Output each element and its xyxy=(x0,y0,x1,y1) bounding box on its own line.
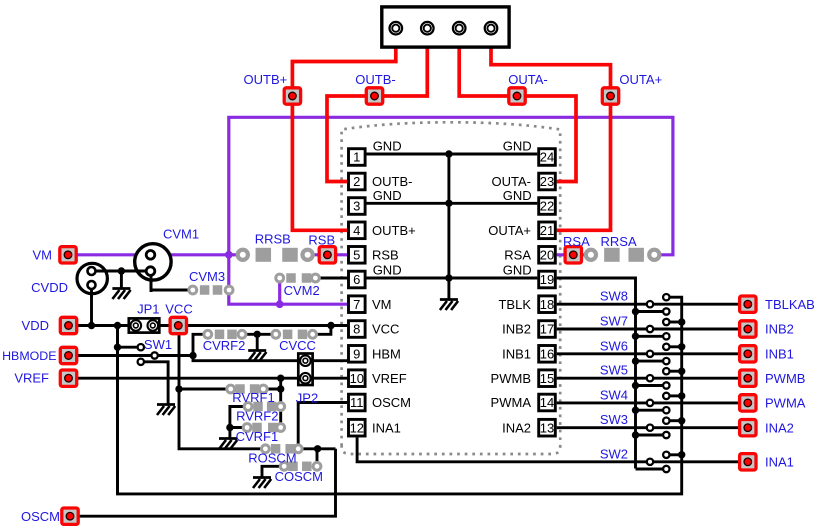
wire VREF terminal to pin 10 xyxy=(69,377,348,380)
svg-text:15: 15 xyxy=(540,371,554,386)
svg-text:OSCM: OSCM xyxy=(372,395,411,410)
label pin 4 OUTB+ xyxy=(372,223,416,238)
label RRSA xyxy=(601,234,637,249)
node right bus junction SW6 xyxy=(678,343,685,350)
wire CVRF1 left stub xyxy=(230,426,247,429)
wire ROSCM right to OSCM drop xyxy=(298,447,335,450)
label pin 17 INB2 xyxy=(502,322,531,337)
wire CVDD top pin to CVM1 bottom pin xyxy=(92,270,152,273)
label VDD xyxy=(22,318,49,333)
svg-text:HBM: HBM xyxy=(372,346,401,361)
wire CVCC right leg to VCC rail xyxy=(313,326,331,335)
node left bus junction SW7 xyxy=(632,333,639,340)
terminal OUTA+ xyxy=(602,88,618,104)
switch SW3 header circles xyxy=(647,418,670,439)
label HBMODE xyxy=(2,349,56,363)
svg-text:VM: VM xyxy=(33,247,53,262)
pin 8 box xyxy=(349,321,366,338)
wire RVRF1 row xyxy=(179,388,231,391)
wire SW3 upper pin to right bus xyxy=(666,419,681,422)
svg-text:VCC: VCC xyxy=(372,322,399,337)
label RVRF2 xyxy=(236,408,278,423)
svg-text:GND: GND xyxy=(373,188,402,203)
svg-text:INB1: INB1 xyxy=(502,346,531,361)
IC U1 dashed courtyard outline xyxy=(342,122,561,454)
label pin 13 INA2 xyxy=(502,420,531,435)
node right bus junction SW3 xyxy=(678,417,685,424)
label pin 10 VREF xyxy=(372,371,407,386)
svg-text:OUTA-: OUTA- xyxy=(508,72,547,87)
svg-text:INA1: INA1 xyxy=(765,454,794,469)
wire red OUTA+: connector pin4 to OUTA+ terminal to pin 21 xyxy=(491,28,611,230)
wire GND center bus xyxy=(447,154,450,299)
label pin 16 INB1 xyxy=(502,346,531,361)
pin 21 box xyxy=(539,222,556,239)
label pin 24 GND xyxy=(503,139,532,154)
wire purple: CVM2 left pin drop xyxy=(278,278,281,304)
node RVRF2-CVRF1 junction xyxy=(226,424,233,431)
svg-text:18: 18 xyxy=(540,297,554,312)
node VDD-CVDD junction xyxy=(88,322,95,329)
label CVRF2 xyxy=(203,338,246,353)
label pin 6 GND xyxy=(373,263,402,278)
svg-text:RRSB: RRSB xyxy=(255,232,291,247)
ground at SW1 xyxy=(157,405,175,416)
svg-text:INA2: INA2 xyxy=(502,420,531,435)
label pin 23 OUTA- xyxy=(492,174,531,189)
wire RVRF2 ground drop xyxy=(228,428,231,438)
svg-text:GND: GND xyxy=(503,263,532,278)
node left bus junction SW3 xyxy=(632,431,639,438)
label VCC xyxy=(165,301,192,316)
wire VDD rail drop to bottom rail xyxy=(116,326,119,494)
terminal INB1 xyxy=(740,346,756,362)
svg-text:8: 8 xyxy=(353,322,360,337)
wire purple: RRSB left circle stub xyxy=(229,253,240,256)
node SW1 stub junction xyxy=(114,344,121,351)
svg-text:GND: GND xyxy=(373,139,402,154)
label pin 14 PWMA xyxy=(491,395,532,410)
terminal OUTA- xyxy=(509,88,525,104)
wire SW6 lower pin to left bus xyxy=(636,360,667,363)
jumper JP2 xyxy=(298,354,312,386)
label VM xyxy=(33,247,53,262)
wire CVM1 bottom pin to CVM3 xyxy=(151,271,193,290)
svg-text:RRSA: RRSA xyxy=(601,234,637,249)
label SW2 xyxy=(600,446,628,461)
node ROSCM junction xyxy=(314,445,321,452)
wire CVRF2 row ground drop xyxy=(256,334,259,349)
svg-text:22: 22 xyxy=(540,199,554,214)
resistor RVRF2 xyxy=(244,402,284,412)
svg-text:OUTB-: OUTB- xyxy=(355,72,395,87)
terminal OSCM xyxy=(62,508,78,524)
label pin 20 RSA xyxy=(504,247,531,262)
node VREF junction xyxy=(277,375,284,382)
node GND bus junction r1 xyxy=(445,150,452,157)
svg-text:OUTB+: OUTB+ xyxy=(244,72,288,87)
label pin 5 RSB xyxy=(372,247,399,262)
svg-text:SW6: SW6 xyxy=(600,338,628,353)
node left bus junction SW4 xyxy=(632,407,639,414)
label pin 3 GND xyxy=(373,188,402,203)
svg-text:SW8: SW8 xyxy=(600,289,628,304)
label JP1 xyxy=(137,301,159,316)
label CVDD xyxy=(31,280,68,295)
label RSA xyxy=(563,234,590,249)
resistor ROSCM xyxy=(262,444,303,454)
svg-text:INA2: INA2 xyxy=(765,420,794,435)
pin 2 box xyxy=(349,173,366,190)
svg-text:PWMA: PWMA xyxy=(765,396,806,411)
svg-text:1: 1 xyxy=(353,150,360,165)
pin 20 box xyxy=(539,247,556,264)
svg-text:VM: VM xyxy=(372,297,392,312)
label RSB xyxy=(308,233,335,248)
label pin 2 OUTB- xyxy=(372,174,412,189)
label INB1 xyxy=(765,346,794,361)
wire HBMODE terminal through SW1 to junction xyxy=(69,354,194,357)
resistor RVRF1 xyxy=(227,384,267,394)
svg-text:11: 11 xyxy=(350,395,364,410)
wire SW8 lower pin to left bus xyxy=(636,310,667,313)
wire right switch bus down to bottom rail and left to VDD rail xyxy=(118,297,682,494)
label PWMB xyxy=(765,371,805,386)
pin 14 box xyxy=(539,394,556,411)
svg-text:INA1: INA1 xyxy=(372,420,401,435)
jumper JP1 xyxy=(129,318,160,332)
label pin 12 INA1 xyxy=(372,420,401,435)
svg-text:13: 13 xyxy=(540,420,554,435)
wire pin 11 OSCM to ROSCM xyxy=(298,403,347,449)
terminal OUTB- xyxy=(366,88,382,104)
svg-text:SW5: SW5 xyxy=(600,363,628,378)
switch SW1 xyxy=(138,344,158,365)
svg-text:CVM2: CVM2 xyxy=(284,283,320,298)
terminal VCC xyxy=(170,317,186,333)
terminal INB2 xyxy=(740,321,756,337)
svg-text:SW4: SW4 xyxy=(600,387,628,402)
label pin 18 TBLK xyxy=(498,297,531,312)
capacitor CVRF1 xyxy=(243,423,284,433)
wire GND row pin6-pin19 xyxy=(366,277,537,280)
node purple junction at VM rail xyxy=(225,251,233,259)
node right bus junction SW7 xyxy=(678,318,685,325)
capacitor CVCC xyxy=(272,330,317,340)
terminal VM xyxy=(60,247,76,263)
svg-text:VDD: VDD xyxy=(22,318,49,333)
svg-text:PWMB: PWMB xyxy=(491,371,531,386)
svg-text:CVCC: CVCC xyxy=(279,338,316,353)
svg-text:SW3: SW3 xyxy=(600,412,628,427)
switch SW5 header circles xyxy=(647,368,670,389)
wire SW3 lower pin to left bus xyxy=(636,434,667,437)
wire VDD terminal through JP1 and VCC to pin 8 xyxy=(69,324,348,327)
switch SW6 header circles xyxy=(647,344,670,365)
terminal VREF xyxy=(60,370,76,386)
svg-text:PWMA: PWMA xyxy=(491,395,532,410)
node RVRF1 right junction xyxy=(277,385,284,392)
terminal PWMB xyxy=(740,370,756,386)
pin 19 box xyxy=(539,271,556,288)
label OUTB- xyxy=(355,72,395,87)
svg-text:VREF: VREF xyxy=(14,371,49,386)
wire SW6 upper pin to right bus xyxy=(666,345,681,348)
svg-text:TBLK: TBLK xyxy=(498,297,531,312)
wire CVM2 right pin to pin 6 xyxy=(315,277,347,280)
terminal VDD xyxy=(60,317,76,333)
wire COSCM right leg xyxy=(316,449,319,467)
wire CVDD ground drop xyxy=(120,271,123,288)
wire INB1 pin 16 to INB1 terminal xyxy=(557,352,748,355)
terminal RSB xyxy=(319,247,335,263)
pin 1 box xyxy=(349,149,366,166)
svg-text:TBLKAB: TBLKAB xyxy=(765,297,815,312)
wire VCC terminal drop to ROSCM row xyxy=(179,335,265,449)
capacitor CVRF2 xyxy=(204,330,246,340)
svg-text:GND: GND xyxy=(503,188,532,203)
pin 9 box xyxy=(349,346,366,363)
label PWMA xyxy=(765,396,806,411)
wire CVRF2 left leg xyxy=(193,334,208,355)
svg-text:17: 17 xyxy=(540,322,554,337)
label OUTA- xyxy=(508,72,547,87)
label OSCM xyxy=(21,509,60,524)
wire CVDD bottom pin to VDD rail xyxy=(90,285,93,326)
terminal HBMODE xyxy=(60,347,76,363)
svg-text:2: 2 xyxy=(353,174,360,189)
capacitor CVM3 xyxy=(189,285,233,295)
svg-text:GND: GND xyxy=(373,263,402,278)
switch SW8 header circles xyxy=(647,294,670,315)
label pin 11 OSCM xyxy=(372,395,411,410)
svg-text:12: 12 xyxy=(350,420,364,435)
wire SW1 pin C to ground xyxy=(141,362,168,404)
svg-text:21: 21 xyxy=(540,223,554,238)
svg-text:GND: GND xyxy=(503,139,532,154)
terminal INA1 xyxy=(740,454,756,470)
svg-text:SW1: SW1 xyxy=(144,337,172,352)
node GND bus junction r6 xyxy=(445,274,452,281)
label pin 15 PWMB xyxy=(491,371,531,386)
pin 17 box xyxy=(539,321,556,338)
node purple junction at pin7 row xyxy=(276,300,284,308)
svg-text:OUTA-: OUTA- xyxy=(492,174,531,189)
resistor RRSA xyxy=(586,248,660,262)
svg-text:9: 9 xyxy=(353,347,360,362)
label INB2 xyxy=(765,322,794,337)
label CVRF1 xyxy=(236,429,279,444)
svg-text:6: 6 xyxy=(353,272,360,287)
svg-text:16: 16 xyxy=(540,347,554,362)
switch SW7 header circles xyxy=(647,319,670,340)
pin 10 box xyxy=(349,370,366,387)
label INA2 xyxy=(765,420,794,435)
wire HBM to pin 9 xyxy=(193,356,347,361)
wire red OUTA-: connector pin3 to OUTA- terminal to pin 23 xyxy=(459,28,576,182)
wire VM purple: VM terminal to junction, up and across top, down to RRSA xyxy=(68,117,673,255)
wire pin 19 to left switch bus xyxy=(557,278,636,469)
wire RVRF2 left leg xyxy=(230,407,248,428)
node left bus junction SW8 xyxy=(632,308,639,315)
wire PWMA pin 14 to PWMA terminal xyxy=(557,401,748,404)
svg-text:14: 14 xyxy=(540,395,554,410)
svg-text:RSA: RSA xyxy=(504,247,531,262)
label pin 19 GND xyxy=(503,263,532,278)
svg-text:19: 19 xyxy=(540,272,554,287)
svg-text:CVDD: CVDD xyxy=(31,280,68,295)
ground at CVDD xyxy=(112,289,130,300)
svg-text:23: 23 xyxy=(540,174,554,189)
connector CN1 4-pin header xyxy=(382,7,509,47)
label VREF xyxy=(14,371,49,386)
svg-text:JP2: JP2 xyxy=(296,391,318,406)
label COSCM xyxy=(275,469,323,484)
label pin 9 HBM xyxy=(372,346,401,361)
node CVRF2-CVCC ground junction xyxy=(254,331,261,338)
svg-text:24: 24 xyxy=(540,150,554,165)
svg-text:3: 3 xyxy=(353,199,360,214)
wire CVRF2 to CVCC row xyxy=(242,333,276,336)
wire purple: pin 20 through RSA terminal to RRSA left circle xyxy=(557,253,589,256)
label OUTB+ xyxy=(244,72,288,87)
node right bus junction SW5 xyxy=(678,368,685,375)
svg-text:INB2: INB2 xyxy=(765,322,794,337)
ground center GND bus xyxy=(440,300,458,311)
node VDD rail junction xyxy=(114,322,121,329)
label CVCC xyxy=(279,338,316,353)
wire SW2 upper pin to right bus xyxy=(666,453,681,456)
wire SW5 upper pin to right bus xyxy=(666,370,681,373)
label RVRF1 xyxy=(232,390,274,405)
label pin 22 GND xyxy=(503,188,532,203)
label TBLKAB xyxy=(765,297,815,312)
label CVM3 xyxy=(189,269,225,284)
svg-text:CVM3: CVM3 xyxy=(189,269,225,284)
wire red OUTB+: connector pin1 to OUTB+ terminal to pin 4 xyxy=(292,28,395,230)
label SW5 xyxy=(600,363,628,378)
node HBM junction xyxy=(189,352,196,359)
label INA1 xyxy=(765,454,794,469)
svg-text:RVRF2: RVRF2 xyxy=(236,408,278,423)
svg-text:OUTB-: OUTB- xyxy=(372,174,412,189)
pin 3 box xyxy=(349,198,366,215)
wire VREF vertical to RVRF2 and CVRF1 xyxy=(279,378,282,427)
svg-text:20: 20 xyxy=(540,248,554,263)
node CVDD-CVM1 ground junction xyxy=(118,267,125,274)
svg-text:COSCM: COSCM xyxy=(275,469,323,484)
wire PWMB pin 15 to PWMB terminal xyxy=(557,377,748,380)
svg-text:10: 10 xyxy=(350,371,364,386)
wire SW1 pin A stub xyxy=(118,346,141,349)
pin 4 box xyxy=(349,222,366,239)
label pin 8 VCC xyxy=(372,322,399,337)
pin 22 box xyxy=(539,198,556,215)
pin 13 box xyxy=(539,419,556,436)
svg-text:7: 7 xyxy=(353,297,360,312)
capacitor CVM2 xyxy=(276,273,319,283)
pin 23 box xyxy=(539,173,556,190)
switch SW2 header circles xyxy=(647,452,670,473)
label ROSCM xyxy=(248,450,296,465)
label SW1 xyxy=(144,337,172,352)
wire SW7 upper pin to right bus xyxy=(666,321,681,324)
svg-text:PWMB: PWMB xyxy=(765,371,805,386)
label CVM1 xyxy=(163,227,199,242)
terminal INA2 xyxy=(740,420,756,436)
wire COSCM left leg to ground xyxy=(262,466,284,476)
switch SW4 header circles xyxy=(647,393,670,414)
wire purple: junction down to VM pin 7 row xyxy=(229,255,347,304)
svg-text:CVRF2: CVRF2 xyxy=(203,338,246,353)
svg-text:JP1: JP1 xyxy=(137,301,159,316)
node left bus junction SW6 xyxy=(632,357,639,364)
svg-text:OUTB+: OUTB+ xyxy=(372,223,416,238)
label RRSB xyxy=(255,232,291,247)
ground at RVRF2-CVRF1 xyxy=(219,439,237,450)
svg-text:CVM1: CVM1 xyxy=(163,227,199,242)
pin 15 box xyxy=(539,370,556,387)
node left bus junction SW5 xyxy=(632,382,639,389)
svg-text:RSB: RSB xyxy=(308,233,335,248)
node right bus junction SW2 xyxy=(678,451,685,458)
node right bus junction SW4 xyxy=(678,392,685,399)
terminal OUTB+ xyxy=(284,88,300,104)
pin 16 box xyxy=(539,346,556,363)
label SW6 xyxy=(600,338,628,353)
pin 12 box xyxy=(349,419,366,436)
ground at COSCM xyxy=(253,478,271,489)
pin 18 box xyxy=(539,296,556,313)
capacitor COSCM xyxy=(280,462,321,472)
wire INB2 pin 17 to INB2 terminal xyxy=(557,328,748,331)
svg-text:VREF: VREF xyxy=(372,371,407,386)
label JP2 xyxy=(296,391,318,406)
wire SW4 lower pin to left bus xyxy=(636,409,667,412)
label OUTA+ xyxy=(619,72,662,87)
wire INA1 pin 12 down and right to INA1 terminal xyxy=(357,437,748,462)
svg-text:INB1: INB1 xyxy=(765,346,794,361)
capacitor CVM1 (electrolytic can) xyxy=(133,244,171,292)
svg-text:RVRF1: RVRF1 xyxy=(232,390,274,405)
label SW4 xyxy=(600,387,628,402)
label SW7 xyxy=(600,314,628,329)
label SW8 xyxy=(600,289,628,304)
wire TBLK pin 18 to TBLKAB terminal xyxy=(557,303,748,306)
label pin 1 GND xyxy=(373,139,402,154)
resistor RRSB xyxy=(238,248,313,262)
label pin 7 VM xyxy=(372,297,392,312)
node VCC rail-CVCC junction xyxy=(327,322,334,329)
wire SW7 lower pin to left bus xyxy=(636,335,667,338)
wire SW5 lower pin to left bus xyxy=(636,384,667,387)
wire GND row pin3-pin22 xyxy=(366,202,537,205)
label SW3 xyxy=(600,412,628,427)
svg-text:HBMODE: HBMODE xyxy=(2,349,56,363)
svg-text:ROSCM: ROSCM xyxy=(248,450,296,465)
svg-text:SW2: SW2 xyxy=(600,446,628,461)
terminal RSA xyxy=(565,247,581,263)
node RVRF1 left junction xyxy=(175,385,182,392)
svg-text:OUTA+: OUTA+ xyxy=(619,72,662,87)
pin 5 box xyxy=(349,247,366,264)
terminal PWMA xyxy=(740,395,756,411)
label pin 21 OUTA+ xyxy=(488,223,531,238)
terminal TBLKAB xyxy=(740,296,756,312)
pin 11 box xyxy=(349,394,366,411)
wire RVRF1 right leg xyxy=(263,388,280,391)
wire INA2 pin 13 to INA2 terminal xyxy=(557,426,748,429)
